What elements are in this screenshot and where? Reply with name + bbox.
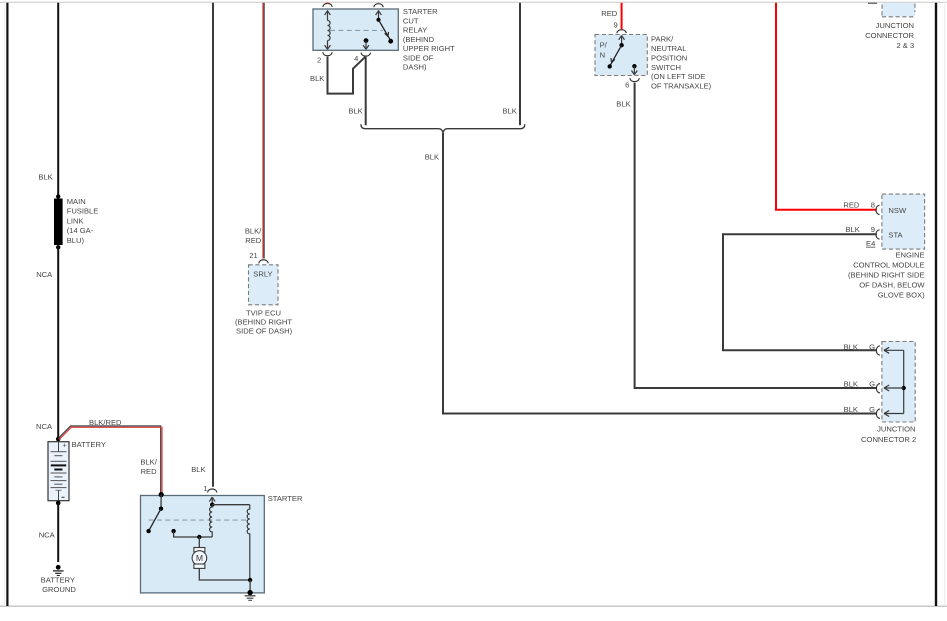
node coil top dot <box>210 503 214 507</box>
wire coil top to hold coil <box>212 504 250 506</box>
svg-text:6: 6 <box>625 81 629 90</box>
svg-text:CONNECTOR: CONNECTOR <box>865 31 914 40</box>
wire BLK vertical to starter pin 1 <box>212 3 214 487</box>
main fusible link (14 GA-BLU) <box>54 199 63 246</box>
ground starter case <box>245 590 256 600</box>
TVIP ECU SRLY box <box>249 265 279 305</box>
wire right vertical BLK full-height <box>935 3 937 606</box>
brace joining BLK wires <box>361 124 525 133</box>
wire left vertical BLK full-height <box>6 3 8 606</box>
svg-text:1: 1 <box>203 484 207 493</box>
svg-text:STA: STA <box>888 231 903 240</box>
svg-text:BLK: BLK <box>348 107 362 116</box>
wire contact to coil bottom <box>174 531 213 537</box>
starter internals <box>146 492 252 592</box>
svg-text:M: M <box>196 553 203 563</box>
svg-text:+: + <box>63 442 67 449</box>
svg-text:NCA: NCA <box>39 531 56 540</box>
starter switch <box>160 495 162 509</box>
svg-text:JUNCTION: JUNCTION <box>876 21 914 30</box>
connector JC2 pin G2 <box>876 384 903 393</box>
svg-text:(14 GA-: (14 GA- <box>67 226 94 235</box>
relay pin 4 inner dot and arrow <box>364 38 369 43</box>
engine control module box <box>882 194 925 249</box>
wire BLK/RED battery to starter <box>58 426 161 494</box>
svg-text:BLK: BLK <box>844 380 858 389</box>
junction connector 2 bus <box>902 350 906 413</box>
svg-text:BLK: BLK <box>191 465 205 474</box>
wire NCA fusible link to battery <box>57 247 59 439</box>
svg-text:G: G <box>869 380 875 389</box>
svg-text:(BEHIND RIGHT: (BEHIND RIGHT <box>235 318 292 327</box>
svg-text:BLK/RED: BLK/RED <box>89 418 122 427</box>
svg-text:NCA: NCA <box>36 422 53 431</box>
starter solenoid dashed link <box>149 519 248 521</box>
svg-text:NSW: NSW <box>888 206 907 215</box>
svg-text:POSITION: POSITION <box>651 53 687 62</box>
relay mech dashed link <box>330 29 383 31</box>
wire RED vertical to park/neutral switch pin 9 <box>621 3 623 30</box>
svg-text:STARTER: STARTER <box>403 7 438 16</box>
wire RED vertical to ECM NSW <box>776 3 877 210</box>
node junction dot to motor <box>197 535 201 539</box>
svg-text:BLU): BLU) <box>67 236 85 245</box>
svg-text:SRLY: SRLY <box>253 270 272 279</box>
wire junction to motor <box>198 537 200 548</box>
connector ECM pin 9 arc <box>876 230 880 239</box>
svg-text:RELAY: RELAY <box>403 26 427 35</box>
wire to case ground <box>249 580 251 592</box>
svg-text:CONNECTOR 2: CONNECTOR 2 <box>861 435 916 444</box>
park/neutral position switch <box>595 35 647 76</box>
svg-text:NCA: NCA <box>36 270 53 279</box>
wire BLK/RED vertical to TVIP ECU pin 21 <box>262 3 264 259</box>
wire BLK from brace to junction connector 2 pin G3 <box>443 133 877 414</box>
svg-text:BLK: BLK <box>845 225 859 234</box>
relay coil <box>327 10 329 20</box>
wire battery feed vertical BLK (top to fusible link) <box>57 3 59 196</box>
svg-text:BLK/: BLK/ <box>140 458 157 467</box>
node solenoid contact dot <box>171 529 175 533</box>
svg-text:ENGINE: ENGINE <box>895 250 924 259</box>
svg-text:PARK/: PARK/ <box>651 35 674 44</box>
svg-text:UPPER RIGHT: UPPER RIGHT <box>403 44 455 53</box>
svg-text:P/: P/ <box>600 41 608 50</box>
svg-text:G: G <box>869 342 875 351</box>
svg-text:(ON LEFT SIDE: (ON LEFT SIDE <box>651 72 705 81</box>
wire BLK vertical right of relay to brace <box>519 3 521 125</box>
svg-text:JUNCTION: JUNCTION <box>877 425 915 434</box>
svg-text:TVIP ECU: TVIP ECU <box>246 309 281 318</box>
svg-text:MAIN: MAIN <box>67 197 86 206</box>
svg-text:BATTERY: BATTERY <box>72 440 106 449</box>
svg-text:DASH): DASH) <box>403 63 427 72</box>
svg-text:21: 21 <box>249 251 257 260</box>
svg-text:STARTER: STARTER <box>268 494 303 503</box>
connector pin 21 arc <box>259 260 268 264</box>
wire motor to ground bus <box>199 568 250 580</box>
svg-text:9: 9 <box>871 225 875 234</box>
svg-text:SWITCH: SWITCH <box>651 63 681 72</box>
svg-text:RED: RED <box>141 467 158 476</box>
connector ECM pin 8 arc <box>876 205 880 214</box>
svg-text:(BEHIND: (BEHIND <box>403 35 435 44</box>
svg-text:RED: RED <box>601 9 618 18</box>
wire stub above relay right <box>378 3 380 4</box>
svg-text:BLK: BLK <box>616 100 630 109</box>
connector relay pin 4 cup <box>361 53 370 57</box>
svg-text:SIDE OF DASH): SIDE OF DASH) <box>236 327 293 336</box>
node junction dot above fusible link <box>56 194 60 198</box>
svg-text:FUSIBLE: FUSIBLE <box>67 207 99 216</box>
node battery positive junction dot <box>56 437 61 442</box>
junction connector 2 & 3 box (top, cut off) <box>868 3 915 17</box>
svg-text:BLK: BLK <box>425 153 439 162</box>
ground battery <box>53 565 64 576</box>
svg-text:G: G <box>869 405 875 414</box>
starter cut relay <box>313 9 398 50</box>
wire NCA battery to ground <box>57 503 59 562</box>
wire BLK pin 6 to junction connector 2 pin G2 <box>635 83 877 388</box>
svg-text:4: 4 <box>354 54 358 63</box>
connector pin 9 arc <box>617 30 626 34</box>
svg-text:E4: E4 <box>866 239 875 248</box>
node battery negative junction dot <box>56 501 61 506</box>
svg-text:2 & 3: 2 & 3 <box>896 41 914 50</box>
node junction dot below fusible link <box>56 245 60 249</box>
svg-text:(BEHIND RIGHT SIDE: (BEHIND RIGHT SIDE <box>848 270 925 279</box>
svg-text:BLK: BLK <box>310 74 324 83</box>
node ground junction dot <box>248 578 252 582</box>
svg-text:8: 8 <box>871 200 875 209</box>
svg-text:BATTERY: BATTERY <box>41 576 75 585</box>
svg-text:CONTROL MODULE: CONTROL MODULE <box>853 260 924 269</box>
connector pin 6 cup <box>630 78 639 82</box>
connector starter pin 1 arc <box>208 489 217 493</box>
wire red stub above relay <box>327 3 329 4</box>
svg-text:N: N <box>600 50 605 59</box>
svg-text:BLK: BLK <box>844 342 858 351</box>
svg-text:BLK/: BLK/ <box>245 226 262 235</box>
svg-text:OF DASH, BELOW: OF DASH, BELOW <box>859 280 925 289</box>
motor M <box>194 548 205 552</box>
svg-text:2: 2 <box>317 55 321 64</box>
connector JC2 pin G1 <box>876 346 903 355</box>
wire BLK ECM STA to junction connector 2 pin G1 <box>723 234 877 350</box>
svg-text:RED: RED <box>245 236 262 245</box>
svg-text:OF TRANSAXLE): OF TRANSAXLE) <box>651 82 712 91</box>
svg-text:BLK: BLK <box>503 107 517 116</box>
connector relay pin top-right arc <box>374 4 383 8</box>
svg-text:BLK: BLK <box>844 405 858 414</box>
svg-text:CUT: CUT <box>403 16 419 25</box>
battery <box>48 442 69 501</box>
svg-text:RED: RED <box>843 200 860 209</box>
wire relay pin 4 down to brace <box>365 57 367 125</box>
svg-text:GROUND: GROUND <box>42 585 76 594</box>
starter pin 1 arrow <box>209 497 215 505</box>
connector relay pin 2 cup <box>323 52 332 56</box>
node entry dot BLK/RED <box>159 492 164 497</box>
svg-text:BLK: BLK <box>38 172 52 181</box>
svg-text:GLOVE BOX): GLOVE BOX) <box>878 290 925 299</box>
starter pull-in coil <box>210 505 213 537</box>
wire relay pin 2 to pin 4 <box>328 57 366 94</box>
starter box <box>141 496 265 593</box>
svg-text:NEUTRAL: NEUTRAL <box>651 44 686 53</box>
junction connector 2 box <box>882 342 915 423</box>
connector JC2 pin G3 <box>876 409 903 418</box>
connector relay pin top-left arc <box>323 3 332 7</box>
svg-text:9: 9 <box>613 21 617 30</box>
relay switch <box>378 10 380 19</box>
starter hold-in coil <box>247 505 250 580</box>
svg-text:LINK: LINK <box>67 216 84 225</box>
svg-text:SIDE OF: SIDE OF <box>403 53 434 62</box>
